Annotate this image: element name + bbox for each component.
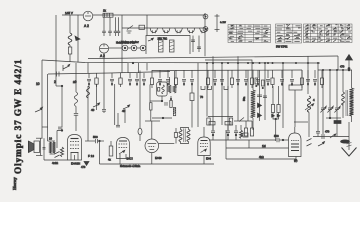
small top boxes at (203,86) (209,86) (226,86)	[201, 86, 205, 89]
mid row item 7 at x=208	[207, 70, 209, 78]
svg-text:470: 470	[340, 65, 345, 69]
wire: x=249 down	[248, 140, 250, 148]
mid row item 9 at x=222	[221, 70, 223, 78]
svg-text:E446: E446	[155, 156, 162, 160]
mid row item 17 at x=282	[281, 70, 283, 78]
svg-text:25Ω 70Ω: 25Ω 70Ω	[158, 38, 168, 41]
svg-text:470: 470	[325, 130, 330, 134]
svg-text:Olympic 37 GW E 442/1: Olympic 37 GW E 442/1	[13, 59, 23, 174]
wire: vertical x=349 down to arrow	[348, 122, 350, 150]
wire: vertical x=125 lower	[124, 109, 126, 123]
wire: top HT bus y=15 left of tube	[62, 14, 83, 16]
capacitor C2 at (110,32)	[108, 30, 112, 32]
wire: vertical x=70 top	[69, 15, 71, 33]
wire: verticals x=192,198	[191, 85, 193, 94]
cap bars x=193,199	[192, 36, 194, 53]
svg-text:50n: 50n	[242, 96, 246, 101]
mid row item 3 at x=168	[167, 70, 169, 78]
wire: bus B2 y=60-63	[42, 60, 320, 63]
wire: C8 to x=104	[98, 140, 105, 142]
coil zigzag at x=174.5	[173, 85, 176, 93]
coil zigzag at x=169.5	[168, 85, 171, 93]
switch wafer bump 1	[150, 28, 158, 33]
left row item 2 at x=96.5 (box)	[96, 73, 98, 78]
capacitor C6 at (76,114)	[74, 113, 78, 115]
heater element E2	[131, 45, 137, 51]
wire: top HT bus right of tube	[93, 14, 205, 16]
svg-text:BW 37/42: BW 37/42	[276, 45, 288, 49]
hatch marks at (349,144)	[347, 143, 352, 145]
wire: y=136.5 mains line	[313, 136, 349, 138]
wire: dropper x=110	[109, 17, 111, 31]
tube V4 anode bar	[119, 140, 127, 142]
oval component at (140,131)	[138, 128, 142, 135]
wire: vertical x=62	[61, 86, 63, 127]
mid row item 5 at x=184	[183, 70, 185, 78]
capacitor ticks at (44,148)	[43, 147, 46, 149]
switch wafer marks under S1	[127, 30, 132, 32]
tube V4 pins	[119, 154, 121, 164]
TR2 primary top lead	[342, 70, 344, 92]
resistor box at (150.8,102.7)	[150, 103, 152, 110]
wire: vertical x=308	[307, 56, 309, 94]
switch wafer bump 3	[175, 28, 183, 33]
wire: coil to resistor	[69, 45, 71, 47]
capacitor C9 at (104,110)	[102, 109, 106, 111]
wire: bus y=60 segment with corner at x=252	[205, 60, 252, 70]
svg-text:E443H: E443H	[71, 162, 80, 166]
capacitor C13 (500)	[276, 138, 278, 142]
wire: vertical x=278.5 lower	[278, 86, 280, 105]
wire: x=150 from bus to 101	[149, 85, 151, 103]
tube V5 top pin	[151, 121, 153, 139]
slash switch at (242,119)	[234, 120, 246, 122]
IF2 cap box at (176,132.6)	[174, 133, 177, 138]
junction dot (349,70)	[348, 69, 350, 71]
power transformer TR2 primary coil	[342, 92, 345, 105]
tube V7 pins	[294, 127, 296, 133]
trimmer arrow at (39,110)	[35, 109, 42, 112]
bracket y=116.5 with boxes	[208, 116, 233, 118]
resistor R4 in heater box	[170, 40, 175, 52]
extra component cluster at (256,78-90)	[255, 78, 258, 84]
wire: vertical x=222	[221, 63, 223, 125]
mid row item 16 at x=272.5	[272, 70, 274, 78]
switch S1 blade	[127, 26, 133, 30]
power transformer TR2 core	[345, 90, 347, 116]
resistor R3 in heater box	[159, 40, 164, 52]
resistor R11 box at (246,128)	[245, 121, 247, 128]
tube V6 anode	[201, 140, 208, 142]
IF1 rounded box (157-167, 82-96)	[157, 82, 167, 96]
output transformer TR1 secondary (dark zigzag)	[53, 142, 55, 153]
switch contacts at (309,141)	[307, 139, 312, 142]
svg-text:40: 40	[91, 108, 95, 112]
wire: y=148 to V7	[226, 147, 289, 149]
wire: vertical x=205 dial lamps	[204, 13, 206, 33]
wire: x=42 to bracket	[41, 137, 43, 139]
heater box outline	[146, 36, 190, 55]
wire: y=122 stub right	[294, 121, 308, 123]
wire: vertical x=56	[55, 15, 57, 86]
wires below variable caps	[322, 110, 324, 134]
arrow at heater box left	[148, 39, 153, 41]
wire: bottom box line y=164	[100, 163, 215, 165]
svg-text:(#): (#)	[294, 159, 297, 163]
hatched resistor at (174.5,107.5)	[173, 108, 175, 116]
wire: y=121 stub over R11/R12	[246, 120, 252, 122]
tube V3 anode bar	[71, 138, 79, 140]
wire: vertical x=238	[237, 56, 239, 121]
wire: vertical x=273 lower	[272, 86, 274, 105]
diode dots under resistors	[272, 114, 275, 117]
svg-text:500: 500	[93, 135, 98, 139]
svg-text:4x2Ω: 4x2Ω	[52, 161, 58, 165]
capacitor C7 at (60,128)	[58, 126, 62, 128]
svg-text:145 V: 145 V	[65, 11, 73, 15]
tube V3 cathode	[71, 152, 79, 154]
svg-text:E44: E44	[206, 157, 211, 161]
mains arrow down	[342, 148, 357, 157]
switch wafer bump 4	[187, 28, 195, 33]
tube V7 internal bars	[291, 143, 299, 145]
table T1 tube data frame	[228, 25, 271, 43]
tube A2 top-left circle	[83, 11, 93, 21]
wire: y=140 to C13	[256, 139, 276, 141]
TR2 secondary leads	[351, 70, 353, 88]
resistor R5 zigzag at (62,147)	[60, 147, 63, 157]
capacitor at (236,131)	[235, 125, 237, 131]
wire: connector (42,127)-(48,127)	[42, 126, 48, 128]
ground symbol right of V3	[84, 162, 89, 166]
svg-text:Netzanode d.Skala: Netzanode d.Skala	[120, 165, 141, 168]
left row item 6 at x=137 (cap)	[136, 73, 138, 78]
mid row item 13 at x=252	[251, 70, 253, 78]
mid row item 6 at x=192	[191, 70, 193, 78]
wire: y=101 stub	[150, 100, 163, 102]
table T3 voltages frame	[304, 24, 353, 43]
variable capacitor at (337,109)	[335, 107, 339, 109]
tube V4 cathode arrow	[119, 151, 124, 154]
coil L1 at (70,33-45)	[68, 33, 72, 45]
arrow tick on mains line at (333,135)	[330, 134, 335, 138]
tube V5 circle	[145, 139, 159, 153]
dark winding L3 at (253,90-118)	[252, 70, 254, 90]
wire: bus B3 y=70	[152, 69, 302, 72]
tube V4 envelope	[117, 138, 130, 159]
vertical x=248 with label	[247, 70, 249, 121]
arrow pot at (126,107)	[123, 106, 129, 109]
tube V6 top pin	[203, 127, 205, 137]
capacitor at (166,103)	[164, 102, 166, 106]
resistor boxes at (273,104.5) (278.5,104.5)	[271, 105, 274, 113]
capacitor C3 at (115.5,32)	[114, 30, 118, 32]
wire: R1 to bus	[69, 54, 71, 62]
dial lamp LP1	[203, 14, 208, 19]
heater element E3	[140, 45, 146, 51]
capacitor C10 at (118,126) on V4 top	[117, 113, 119, 125]
wire: vertical x=207	[206, 63, 208, 117]
IF2 secondary coil	[187, 130, 190, 142]
wire: V2 bottom stub to bus	[103, 53, 105, 63]
wire: V5 to IF2	[159, 143, 175, 145]
wire: below L2	[75, 106, 77, 113]
wire: vertical x=99.5 to bottom box	[99, 141, 101, 164]
junction dot (133,63)	[132, 62, 134, 64]
arrow at (321,143)	[318, 143, 324, 146]
arrow across L4	[305, 104, 313, 110]
svg-text:F 13: F 13	[88, 154, 94, 158]
tube V4 grid dashes	[119, 143, 128, 145]
table T2 coil data text marks	[276, 24, 300, 41]
mid row item 12 at x=246	[245, 70, 247, 78]
left row item 4 at x=120.5 (box)	[120, 73, 122, 78]
long verticals x=88,96,104,114.7,128,138.5,147	[87, 63, 89, 74]
tube V6 cathode arrow	[201, 150, 206, 153]
capacitor C14 at (323,136.5)	[321, 134, 323, 139]
mid row item 20 at x=308	[307, 70, 309, 78]
wires above IF1 coils	[169, 77, 171, 85]
svg-text:70: 70	[200, 95, 204, 99]
switch wafer bump 2	[162, 28, 170, 33]
wire: verticals x=323,330,337 upper	[322, 70, 324, 108]
mid row item 4 at x=176	[175, 70, 177, 78]
wire: vertical x=147 bus to box	[146, 15, 148, 36]
mid row item 21 at x=315	[314, 70, 316, 78]
left row item 7 at x=144 (cap)	[143, 73, 145, 78]
capacitor C5 on B4	[56, 72, 58, 77]
tube V6 grid dashes	[200, 143, 208, 145]
tube V2 circle A2 lower	[99, 44, 108, 53]
wire: bottom y=160	[44, 159, 68, 161]
left row item 1 at x=89 (cap)	[88, 73, 90, 78]
resistor R9 box at (192,93)	[190, 93, 194, 101]
switch wafer bump 5	[200, 28, 208, 33]
resistor R1 box	[68, 47, 71, 54]
tube V6 envelope	[198, 137, 210, 156]
left row item 5 at x=130 (cap)	[129, 73, 131, 78]
component box at (289,85)	[289, 85, 302, 90]
wire: switch line y=28	[122, 27, 205, 29]
svg-text:2: 2	[54, 80, 56, 84]
TR2 primary bottom lead	[342, 103, 344, 118]
wire: bus B1 y=57	[88, 56, 338, 59]
heater element E1	[122, 45, 128, 51]
mid row item 11 at x=238	[237, 70, 239, 78]
vertical x=265	[264, 63, 266, 120]
IF2 top bracket	[181, 128, 189, 130]
mid row item 18 at x=292	[291, 70, 293, 78]
junction bar x=217	[216, 14, 218, 32]
mid row item 19 at x=302	[301, 70, 303, 78]
wire: dropper x=118.5	[118, 17, 120, 31]
TR1 top/bottom stubs	[48, 140, 56, 142]
wire: dropper x=115.5	[115, 17, 117, 31]
table T3 voltages text marks	[305, 24, 351, 42]
svg-text:Horny: Horny	[12, 177, 17, 190]
svg-text:a.zw: a.zw	[220, 20, 227, 24]
wire: vertical x=283	[282, 63, 284, 128]
svg-text:4kΩ: 4kΩ	[259, 155, 264, 159]
svg-text:10: 10	[36, 82, 40, 86]
table T2 coil data frame	[276, 24, 302, 43]
dark blob capacitor at (345,141)	[341, 140, 350, 143]
output tube V3 envelope	[68, 135, 82, 161]
wire: y=86 stub	[56, 85, 62, 87]
wires below resistors	[273, 113, 279, 120]
IF2 core	[183, 129, 185, 143]
svg-text:1M: 1M	[262, 144, 266, 148]
left row item 3 at x=112 (cap)	[111, 73, 113, 78]
wire: corner x=338 down	[337, 56, 339, 70]
tube V6 bottom pin to y=164	[203, 156, 205, 165]
capacitor C4 at (118.5,32)	[117, 30, 121, 32]
mid row item 1 at x=152	[151, 70, 153, 78]
wire: y=140 under caps	[209, 139, 256, 141]
junction dots on bus B2	[206, 62, 207, 63]
junction y=118 row	[329, 117, 331, 119]
coil on x=88 at (88,86-98)	[87, 86, 90, 98]
wire: y=121 stub	[145, 120, 160, 122]
wire: y=141 stub	[85, 140, 95, 142]
boxes above caps at (210,124.5) and (227,124.5)	[209, 122, 215, 125]
component box on switch line	[139, 25, 145, 29]
variable capacitor at (323,109)	[321, 107, 325, 109]
resistor R2 on top bus	[103, 13, 113, 17]
mid row item 22 at x=322	[321, 70, 323, 78]
wire: x=275.7 to y=141	[275, 122, 277, 141]
wire: x=57 down	[56, 131, 58, 149]
IF2 bottom bracket	[181, 142, 189, 144]
dark blob at (337,121)	[334, 121, 341, 124]
speaker bracket	[36, 137, 43, 139]
wire: vertical x=122	[121, 15, 123, 73]
wire: dropper x=104	[103, 17, 105, 31]
junction dots on far right bus B3b	[322, 69, 323, 70]
IF1 inner rect	[158, 88, 160, 92]
antenna arrow up at (349,55)	[348, 60, 350, 68]
wire: vertical x=140 to oval	[139, 71, 141, 129]
wire: vertical x=76 upper	[75, 63, 77, 92]
svg-text:470: 470	[81, 165, 86, 169]
tube V3 grid dashes	[70, 141, 79, 143]
svg-text:A 2: A 2	[84, 24, 89, 28]
tube V5 bottom pin	[151, 153, 153, 164]
capacitor C8 (500) at (96.5,141)	[95, 139, 97, 143]
svg-text:500: 500	[274, 134, 279, 138]
tube V5 internal bars	[148, 142, 157, 144]
wire: vertical x=226	[225, 130, 227, 159]
tube V3 pins	[70, 153, 72, 161]
mid row item 15 at x=268	[267, 70, 269, 78]
speaker LS1 magnet box	[34, 141, 40, 153]
IF1 inner coil	[162, 85, 165, 94]
wire: x=44 vertical beside speaker	[43, 138, 45, 160]
trimmer arrow at (66,67)	[63, 66, 69, 69]
mid row item 8 at x=215	[214, 70, 216, 78]
power transformer TR2 secondary tall dark winding	[350, 88, 354, 116]
mid row item 14 at x=258	[257, 70, 259, 78]
diode arrow at (78,37)	[77, 15, 79, 62]
resistor R6 box at (111,146)	[110, 141, 112, 146]
wire: bus B4 y=73	[48, 72, 170, 75]
trimmer contacts at (57,153)	[55, 152, 60, 155]
wire: vertical x=42 bus to speaker bracket	[41, 60, 43, 138]
wire: vertical x=47.5 to transformer	[47, 74, 49, 141]
IF2 primary coil	[179, 130, 182, 142]
wire: y=159 lower	[226, 158, 296, 160]
resistor R10 zigzag at (241,130)	[240, 125, 242, 130]
resistor R12 box at (252,128)	[251, 121, 253, 128]
wire: x=295 box to V7	[294, 90, 296, 127]
mid row item 10 at x=232	[231, 70, 233, 78]
svg-text:1ACl: 1ACl	[127, 157, 133, 161]
svg-text:Heizw. 25Ω 70Ω: Heizw. 25Ω 70Ω	[116, 41, 135, 45]
coil L2 at (76,92-106)	[74, 92, 77, 106]
wire: vertical x=318 with cap	[317, 63, 319, 131]
component stack x=259: diode arrows	[259, 70, 261, 121]
tube V7 envelope	[289, 133, 302, 157]
wire: y=118 stub	[152, 117, 172, 119]
capacitor C1 at (104,32)	[102, 30, 106, 32]
wire: heater line y=48	[109, 47, 122, 49]
capacitor at (228,131)	[227, 125, 229, 131]
wire: bus B3b far right	[318, 69, 352, 71]
capacitor at (213,131)	[212, 125, 214, 131]
arrow pot at (96,105)	[93, 104, 99, 107]
resistor box at (171,100.4)	[170, 96, 172, 100]
output transformer TR1 primary (dark zigzag)	[50, 142, 52, 153]
mid row item 2 at x=160	[159, 70, 161, 78]
wire: corner x=302 down	[301, 70, 303, 85]
wire: vertical x=228	[227, 70, 229, 130]
wire: x=162 from IF1 down	[161, 96, 163, 101]
component box at (243,133)	[240, 134, 243, 136]
dial lamp LP2	[203, 27, 208, 32]
variable capacitor at (330,109)	[328, 107, 332, 109]
wire: vertical x=213	[212, 56, 214, 130]
table T1 tube data text marks	[229, 25, 269, 42]
coil L4 at (309,96-112)	[307, 96, 310, 112]
speaker LS1 cone	[29, 141, 35, 153]
